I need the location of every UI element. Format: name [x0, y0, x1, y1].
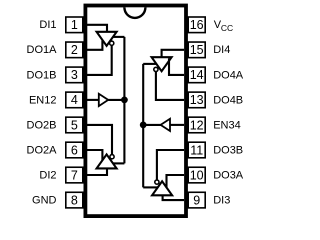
wire DI3 input (pin9 to driver3 bottom) [163, 195, 184, 200]
svg-text:DI4: DI4 [213, 44, 230, 56]
svg-text:DI3: DI3 [213, 195, 230, 207]
pin 6 box [66, 142, 83, 158]
wire enable driver4 (left edge to enable rail) [143, 63, 156, 65]
driver U1c triangle [152, 181, 172, 195]
wire DI2 input (pin7 to driver2 bottom) [87, 168, 107, 175]
wire DI1 input (pin1 to driver1 top) [87, 25, 107, 32]
svg-text:DO1B: DO1B [27, 69, 57, 81]
pin 14 box [188, 67, 205, 83]
svg-text:1: 1 [71, 18, 78, 32]
wire DO2B (pin5 to bubble driver2) [87, 125, 112, 155]
wire DO4B (bubble down to pin13) [156, 72, 184, 100]
pin 8 box [66, 192, 83, 208]
svg-text:EN12: EN12 [29, 94, 57, 106]
svg-text:11: 11 [190, 143, 203, 157]
svg-text:3: 3 [71, 68, 78, 82]
buffer U1e EN12 [99, 94, 108, 106]
wire EN34 input (pin12 to buffer) [170, 124, 184, 126]
bubble driver3 inverting output [155, 180, 159, 184]
svg-text:DO2A: DO2A [27, 144, 58, 156]
bubble driver1 inverting output [110, 41, 114, 45]
svg-text:4: 4 [71, 93, 78, 107]
svg-text:DI2: DI2 [39, 169, 56, 181]
svg-text:9: 9 [193, 193, 200, 207]
wire DO1A (driver1 left edge to pin2) [87, 41, 102, 50]
junction EN12 node [121, 97, 128, 104]
bubble driver4 inverting output [154, 67, 158, 71]
junction EN34 node [140, 122, 147, 129]
svg-text:13: 13 [190, 93, 204, 107]
pin 7 box [66, 167, 83, 183]
svg-text:7: 7 [71, 168, 78, 182]
pin 3 box [66, 67, 83, 83]
svg-text:2: 2 [71, 43, 78, 57]
wire enable driver2 (rail to right edge) [113, 162, 125, 164]
pin 11 box [188, 142, 205, 158]
pin 16 box [188, 17, 205, 33]
pin 2 box [66, 42, 83, 58]
wire EN34 output to junction [143, 124, 160, 126]
pin 1 box [66, 17, 83, 33]
svg-text:8: 8 [71, 193, 78, 207]
svg-text:6: 6 [71, 143, 78, 157]
pin 15 box [188, 42, 205, 58]
wire DO3B (pin11 to bubble driver3) [157, 150, 184, 180]
wire EN12 output to junction [108, 99, 124, 101]
svg-text:DO3B: DO3B [213, 144, 243, 156]
pin 4 box [66, 92, 83, 108]
driver U1a triangle [97, 32, 117, 46]
wire enable driver3 (rail to left edge) [143, 186, 157, 188]
svg-text:DO1A: DO1A [27, 44, 58, 56]
wire DO1B (bubble down to pin3) [87, 45, 112, 75]
pin 5 box [66, 117, 83, 133]
driver U1b triangle [97, 154, 117, 168]
wire enable rail left (vertical) [123, 37, 125, 163]
pin 10 box [188, 167, 205, 183]
svg-text:DO3A: DO3A [213, 169, 244, 181]
svg-text:EN34: EN34 [213, 119, 241, 131]
svg-text:16: 16 [190, 18, 204, 32]
IC body U1 [85, 6, 186, 217]
wire enable rail right (vertical) [142, 64, 144, 187]
svg-text:DO4B: DO4B [213, 94, 243, 106]
buffer U1f EN34 [161, 119, 170, 131]
notch (pin-1 index) [124, 7, 145, 18]
wire DO4A (driver4 right edge to pin14) [169, 58, 184, 75]
pin 12 box [188, 117, 205, 133]
svg-text:15: 15 [190, 43, 204, 57]
svg-text:12: 12 [190, 118, 204, 132]
svg-text:14: 14 [190, 68, 204, 82]
wire DO3A (pin10 to driver3 right edge) [167, 175, 185, 188]
svg-text:CC: CC [221, 23, 233, 33]
pin 9 box [188, 192, 205, 208]
pin 13 box [188, 92, 205, 108]
wire enable driver1 (right edge to enable rail) [113, 36, 125, 38]
svg-text:DO2B: DO2B [27, 119, 57, 131]
svg-text:10: 10 [190, 168, 204, 182]
wire DO2A (pin6 to driver2 left edge) [87, 150, 102, 160]
wire EN12 input (pin4 to buffer) [87, 99, 99, 101]
driver U1d triangle [152, 57, 172, 71]
svg-text:DI1: DI1 [39, 19, 56, 31]
svg-text:DO4A: DO4A [213, 69, 244, 81]
bubble driver2 inverting output [110, 155, 114, 159]
wire DI4 input (pin15 to driver4 top) [162, 50, 184, 58]
svg-text:GND: GND [32, 195, 57, 207]
svg-text:5: 5 [71, 118, 78, 132]
